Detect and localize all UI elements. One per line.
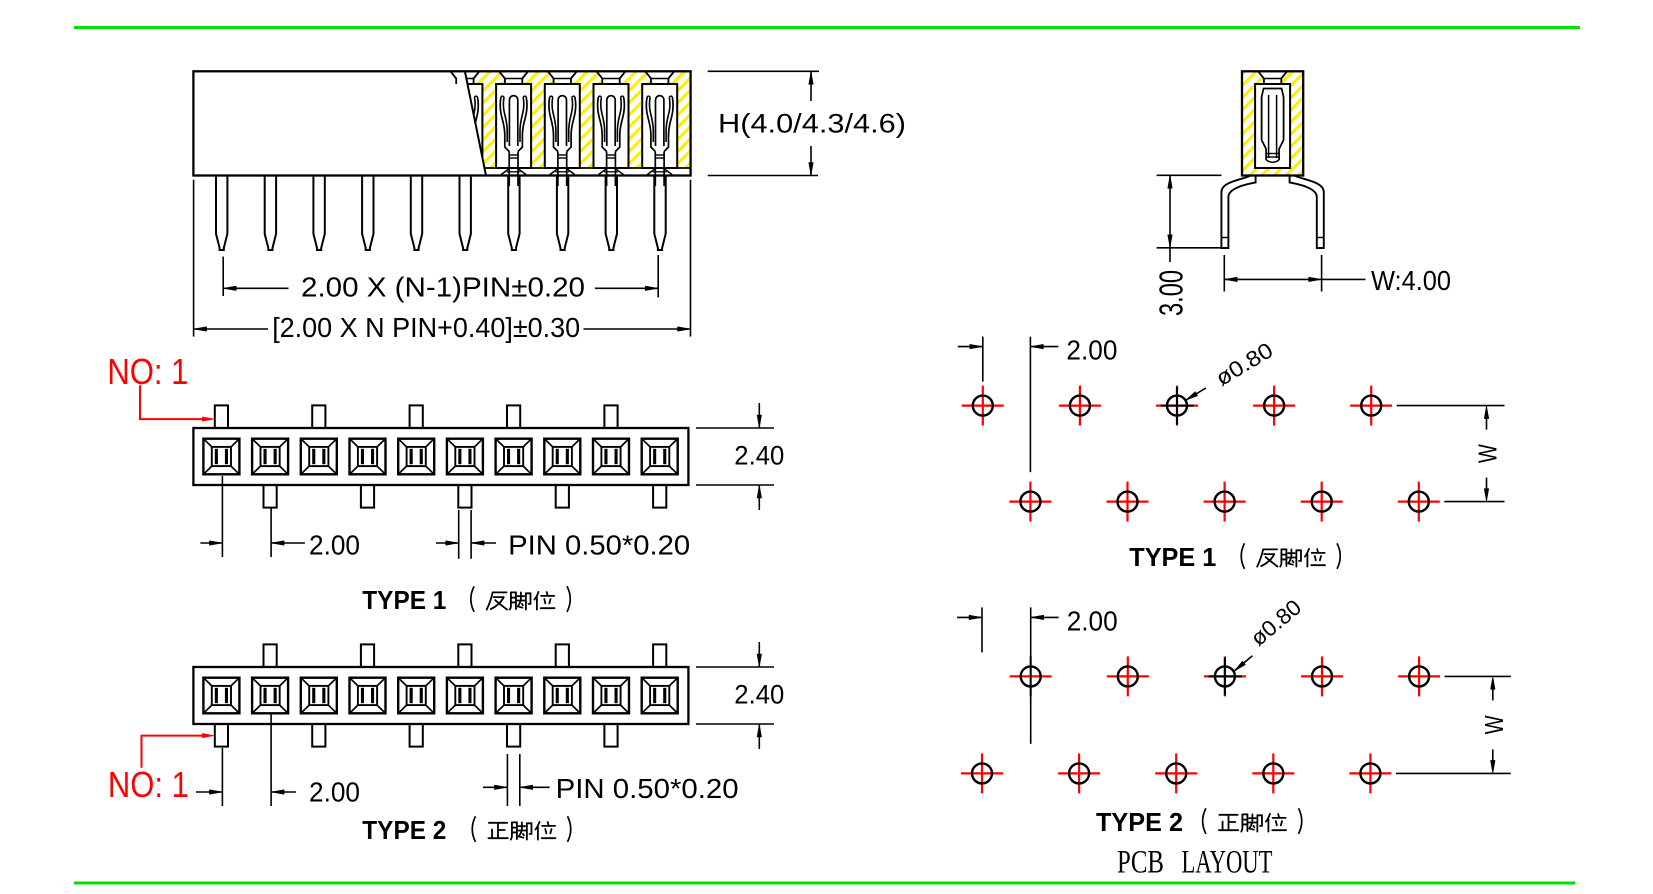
svg-text:LAYOUT: LAYOUT (1182, 845, 1273, 881)
svg-text:[2.00 X N PIN+0.40]±0.30: [2.00 X N PIN+0.40]±0.30 (272, 312, 580, 343)
svg-text:ø0.80: ø0.80 (1246, 594, 1307, 650)
svg-text:3.00: 3.00 (1153, 270, 1190, 316)
svg-text:PCB: PCB (1117, 845, 1164, 881)
svg-text:PIN 0.50*0.20: PIN 0.50*0.20 (508, 530, 690, 561)
svg-text:H(4.0/4.3/4.6): H(4.0/4.3/4.6) (718, 109, 906, 139)
svg-text:ø0.80: ø0.80 (1211, 337, 1277, 390)
svg-text:NO: 1: NO: 1 (108, 764, 189, 805)
svg-text:2.40: 2.40 (734, 441, 784, 471)
svg-text:PIN 0.50*0.20: PIN 0.50*0.20 (556, 773, 739, 804)
svg-text:2.00: 2.00 (309, 530, 360, 561)
svg-text:2.40: 2.40 (734, 680, 784, 710)
svg-text:NO: 1: NO: 1 (107, 351, 188, 392)
svg-text:2.00 X (N-1)PIN±0.20: 2.00 X (N-1)PIN±0.20 (301, 272, 585, 303)
svg-text:TYPE 1: TYPE 1 (362, 585, 446, 615)
svg-text:W: W (1473, 444, 1503, 463)
svg-text:W: W (1479, 715, 1509, 734)
svg-text:2.00: 2.00 (309, 777, 360, 808)
svg-text:W:4.00: W:4.00 (1371, 265, 1451, 296)
svg-text:2.00: 2.00 (1066, 335, 1117, 366)
svg-text:TYPE 2: TYPE 2 (362, 815, 446, 845)
svg-text:TYPE 1: TYPE 1 (1129, 542, 1216, 572)
svg-text:TYPE 2: TYPE 2 (1096, 807, 1183, 837)
svg-text:2.00: 2.00 (1067, 605, 1118, 636)
